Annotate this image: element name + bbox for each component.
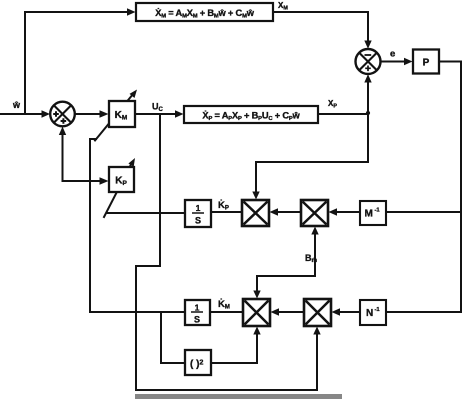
junction dot Xp bbox=[366, 111, 370, 115]
svg-text:-1: -1 bbox=[375, 307, 381, 313]
svg-text:ŵ: ŵ bbox=[12, 100, 21, 110]
svg-text:ẊM = AMXM + BMŵ + CMŵ: ẊM = AMXM + BMŵ + CMŵ bbox=[155, 8, 254, 20]
wire Km adaptation diagonal arrow bbox=[95, 94, 134, 141]
arrow tip Kp adaptation bbox=[128, 158, 135, 167]
svg-text:1: 1 bbox=[195, 303, 200, 313]
squarer block bbox=[185, 350, 211, 375]
gain block Kp bbox=[109, 167, 134, 192]
wire Uc: Km to plant box bbox=[135, 113, 178, 115]
arrow into X2-bot bottom (Uc) bbox=[313, 327, 320, 335]
arrow into LJ bottom bbox=[59, 127, 66, 135]
svg-text:-1: -1 bbox=[375, 208, 381, 214]
multiplier X2-mid bbox=[301, 200, 328, 226]
wire Kp output left along y181 bbox=[63, 180, 103, 182]
svg-text:N: N bbox=[366, 308, 373, 319]
multiplier X1-bot bbox=[243, 299, 270, 326]
wire X2-mid to X1-mid bbox=[275, 211, 301, 213]
arrow into RJ bottom bbox=[364, 74, 371, 82]
wire Kp line up into LJ bottom bbox=[62, 132, 64, 181]
wire plant output Xp to junction bbox=[318, 113, 368, 115]
arrow into X1-mid top bbox=[252, 192, 259, 200]
wire squarer output up into X1-bot bottom bbox=[212, 333, 257, 363]
wire RJ output e to P bbox=[381, 61, 408, 63]
arrow into P bbox=[404, 58, 413, 65]
wire squarer feed from Km-hat line bbox=[161, 312, 183, 363]
gain block Km bbox=[109, 101, 135, 127]
arrow into model box bbox=[127, 8, 136, 15]
wire M-inv to X2-mid bbox=[334, 211, 360, 213]
svg-text:ẊP = APXP + BPUC + CPŵ: ẊP = APXP + BPUC + CPŵ bbox=[202, 110, 300, 122]
arrow into plant box bbox=[175, 110, 184, 117]
block M-inverse bbox=[360, 201, 386, 225]
wire P output right and down to N-inv bbox=[386, 62, 461, 313]
svg-text:M: M bbox=[365, 209, 373, 220]
wire branch up to model box bbox=[25, 12, 130, 114]
svg-text:e: e bbox=[390, 49, 395, 60]
arrow into X1-mid right bbox=[270, 208, 279, 215]
wire X1-bot to integrator (Km-dot) bbox=[210, 311, 243, 313]
svg-text:P: P bbox=[423, 58, 430, 69]
wire N-inv to X2-bot bbox=[337, 311, 360, 313]
arrow into X1-bot top (B-hat) bbox=[253, 291, 260, 299]
arrow into RJ top bbox=[364, 41, 371, 49]
arrow into X2-bot right bbox=[332, 308, 341, 315]
block N-inverse bbox=[360, 300, 386, 325]
gain block P bbox=[413, 50, 439, 74]
wire Xp down and left into X1-mid top bbox=[256, 114, 368, 194]
summing junction RJ bbox=[356, 49, 381, 74]
svg-text:1: 1 bbox=[196, 203, 201, 213]
plant equation box bbox=[184, 106, 318, 123]
integrator 1/S bottom bbox=[185, 300, 210, 325]
wire Kp adaptation diagonal arrow bbox=[104, 163, 132, 218]
wire model output Xm to RJ top bbox=[273, 12, 368, 43]
summing junction LJ bbox=[50, 102, 75, 127]
multiplier X1-mid bbox=[242, 200, 269, 226]
arrow into LJ left bbox=[42, 110, 51, 117]
wire input w-hat from left bbox=[0, 113, 44, 115]
wire branch to M-inv bbox=[386, 211, 461, 213]
arrow into X2-mid bottom (B-hat) bbox=[311, 227, 318, 235]
arrow into Kp left bbox=[100, 177, 109, 184]
arrow into Km left bbox=[100, 110, 109, 117]
wire Uc branch down, jog left, bottom run, up into X2-bot bbox=[136, 114, 317, 390]
wire X1-mid to integrator (Kp-dot) bbox=[211, 211, 242, 213]
multiplier X2-bot bbox=[304, 299, 331, 326]
arrowheads bbox=[42, 8, 413, 334]
svg-text:S: S bbox=[195, 216, 201, 226]
wire B-hat feed bbox=[257, 232, 315, 293]
wire X2-bot to X1-bot bbox=[276, 311, 304, 313]
arrow into X2-mid right bbox=[329, 208, 338, 215]
wire LJ output to Km bbox=[75, 113, 102, 115]
arrow tip Km adaptation bbox=[130, 90, 138, 99]
arrow into X1-bot right bbox=[271, 308, 280, 315]
wire integrator out to Kp gain bbox=[107, 212, 185, 214]
svg-text:S: S bbox=[194, 315, 200, 325]
integrator 1/S middle bbox=[185, 200, 211, 227]
model equation box bbox=[136, 3, 273, 21]
wire Xp up into RJ bottom bbox=[367, 80, 369, 114]
scan artifact grey band bbox=[135, 394, 342, 399]
wire integrator out left and up to Km gain bbox=[90, 139, 185, 312]
arrow into X1-bot bottom (squarer) bbox=[253, 327, 260, 335]
